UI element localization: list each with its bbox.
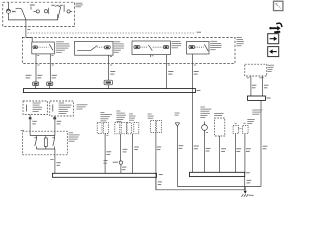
splice S3 (104, 80, 112, 85)
ground G1 hatching (241, 194, 248, 197)
terminal T1 (29, 117, 32, 119)
I/P fuse block dashed enclosure (22, 37, 235, 63)
B4 ref label (266, 97, 270, 99)
pin tick 90 (63, 5, 65, 12)
W14 label (134, 147, 139, 150)
wire W11 upper (54, 116, 56, 136)
relay K3 (132, 41, 171, 55)
C200 pin symbol (26, 105, 28, 112)
W13 label (123, 149, 128, 152)
W9 label (263, 146, 268, 149)
W17 pin label (206, 132, 208, 134)
W2 gauge label (37, 75, 42, 78)
splice ring S4 (119, 161, 122, 164)
antenna symbol (175, 113, 180, 115)
nav arrow right button (268, 34, 279, 44)
W16 label (179, 146, 184, 149)
C5 halves (233, 125, 238, 133)
W8 label (264, 85, 268, 88)
ground bus bar B3 (190, 172, 245, 176)
wire W14 (132, 134, 134, 174)
junction block dashed box right (245, 64, 267, 76)
hood ajar switch dashed box (23, 131, 68, 155)
B3 drop label (247, 180, 252, 183)
W11 label (57, 121, 62, 124)
wire W1 from switch to fuse block (26, 20, 32, 42)
module M1 dashed outline (215, 118, 225, 136)
contact D (67, 10, 70, 13)
W10 label (32, 121, 37, 124)
inline connector C5 label (247, 119, 255, 123)
relay K2 label (114, 42, 125, 53)
contact C (44, 10, 47, 13)
W12 label b (104, 161, 108, 164)
contact B (36, 10, 39, 13)
W7 label (252, 85, 257, 88)
power bus bar B1 (23, 89, 195, 93)
internal top rail (30, 135, 55, 137)
wire W13 lower (120, 164, 122, 173)
W5 label (168, 72, 173, 75)
module M1 label (214, 114, 224, 116)
wire W18 (219, 136, 221, 172)
C5 pin labels (235, 122, 246, 124)
S4 label (113, 161, 118, 163)
hotlink icon (269, 23, 282, 32)
ground feed line upper (177, 186, 261, 188)
relay K4 (187, 42, 210, 55)
B3 drop wire (244, 177, 246, 190)
junction block label (268, 65, 275, 71)
lamp circle (202, 125, 208, 131)
C201 label (59, 103, 72, 114)
W2 circuit label (26, 75, 32, 78)
label AUTO (51, 4, 55, 6)
W13 lower label (122, 167, 126, 170)
label 90 (60, 4, 63, 6)
relay K4 label (210, 41, 222, 49)
net label (197, 31, 202, 33)
C201 pin symbol (52, 105, 54, 112)
pin tick 130 (30, 7, 32, 10)
label OFF (12, 11, 16, 13)
internal bottom rail (36, 148, 55, 150)
right column drop (260, 101, 262, 187)
lamp symbol (6, 9, 10, 13)
side note label (77, 105, 88, 109)
switch name label (76, 3, 83, 7)
switch blade 2 (55, 6, 61, 20)
ground feed line lower (156, 177, 245, 190)
wire W10 (29, 115, 31, 136)
wire W5 K3 to bus (165, 55, 167, 89)
K3 pin stub (149, 55, 151, 58)
wire W11 lower to ground bus (54, 149, 56, 173)
relay K1 label (56, 42, 70, 53)
connector C3 halves (127, 123, 132, 134)
antenna wire W16 (176, 126, 178, 186)
B3 ref label (246, 172, 250, 174)
W6 label upper (194, 72, 199, 75)
wire W8 (261, 76, 263, 96)
terminal T2 (53, 117, 56, 119)
body harness connector C200 dashed box (23, 101, 48, 115)
JB pin labels (247, 77, 264, 79)
G1 label (249, 194, 254, 196)
W11 lower label (57, 163, 61, 166)
branch blade 2 (52, 136, 55, 150)
splice label left (50, 159, 54, 161)
component P2 label (116, 111, 126, 122)
relay K3 label (172, 42, 182, 48)
relay K2 (75, 41, 114, 55)
fuse block name label (237, 37, 245, 45)
splice S1 (33, 82, 39, 86)
junction stub (244, 187, 246, 191)
B2 ref label (159, 174, 163, 176)
pin label below switch (28, 29, 31, 31)
component P3 label (129, 114, 136, 120)
W20 label (246, 149, 251, 152)
wire W20 (244, 134, 246, 173)
W3 label (52, 75, 57, 78)
W18 label (221, 149, 226, 152)
nav icon zoom box (274, 1, 283, 10)
dashed continuation net (28, 32, 196, 34)
K2 pin stub (108, 55, 110, 58)
connector C4 halves (151, 121, 156, 133)
switch common rail (9, 13, 58, 20)
connector C1 halves (97, 123, 102, 134)
connector C2 halves (115, 123, 120, 134)
wire W12 (104, 134, 106, 174)
connector C201 dashed box (50, 101, 74, 116)
relay K1 (32, 42, 55, 54)
component P4 label (148, 114, 154, 118)
wire W2 K1 pin1 to splice (35, 57, 37, 82)
wire W15 (155, 133, 157, 190)
C200 label (33, 103, 43, 111)
B4 connector label (252, 110, 262, 114)
splice S2 (47, 82, 53, 86)
nav arrow left button (268, 47, 279, 57)
headlamp switch S1 dashed enclosure (3, 2, 75, 26)
W6 label lower (194, 146, 199, 149)
W12 label (106, 152, 111, 155)
W12 pin label (106, 134, 108, 136)
W15 label (157, 147, 161, 150)
wire W3 K1 pin2 to splice (49, 57, 51, 82)
switch box corner label (21, 130, 24, 132)
branch blade 1 (34, 136, 37, 150)
component P1 label (100, 113, 112, 121)
ground bus bar B2 (53, 173, 157, 177)
W19 label (236, 149, 241, 152)
bus B1 ref label (197, 89, 201, 91)
wire W19 (234, 134, 236, 173)
wire W7 (250, 76, 252, 96)
bus bar B4 (248, 96, 266, 100)
lamp pin stub (204, 122, 206, 125)
wire W13 upper (119, 134, 121, 161)
pin 130 label (30, 4, 35, 6)
switch box label (69, 133, 80, 141)
lamp feed stub (7, 3, 9, 10)
wire W6 K4 through bus to G bus (191, 54, 193, 172)
wire W4 K2 to splice (108, 58, 110, 80)
ground G1 arrow (244, 191, 247, 194)
wire W17 (204, 130, 206, 172)
switch blade 1 (16, 8, 26, 20)
branch resistor (45, 136, 47, 139)
B2 drop label (158, 182, 162, 185)
W17 label (206, 148, 211, 151)
W4 label (110, 72, 115, 75)
pin labels at fuse block bottom edge (37, 64, 196, 66)
K1 pin stubs (35, 54, 37, 57)
courtesy lamp label (200, 107, 211, 118)
